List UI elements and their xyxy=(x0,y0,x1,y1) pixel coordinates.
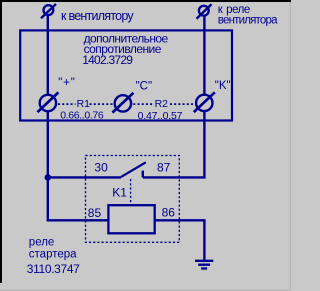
label: к реле вентилятора xyxy=(218,4,278,27)
svg-text:0.47..0.57: 0.47..0.57 xyxy=(138,110,183,122)
wire: coil pin 86 to ground xyxy=(156,220,205,261)
junction node on left wire xyxy=(45,174,52,181)
armature link (dashed) xyxy=(130,179,132,204)
ground symbol xyxy=(195,261,213,269)
label: дополнительное сопротивление 1402.3729 xyxy=(82,32,168,67)
svg-text:0.66..0.76: 0.66..0.76 xyxy=(60,110,104,122)
terminal: to fan (screw symbol) xyxy=(41,4,56,18)
svg-text:"C": "C" xyxy=(136,80,152,92)
resistor R2 (dashed leads) xyxy=(133,103,193,105)
relay K1 dashed enclosure xyxy=(86,156,180,243)
svg-text:1402.3729: 1402.3729 xyxy=(82,53,133,67)
terminal: to fan relay (screw symbol) xyxy=(197,4,212,18)
contact: fixed 87 tick xyxy=(142,171,144,178)
relay coil K1 xyxy=(108,205,154,233)
wire: left vertical from fan terminal down and across to coil pin 85 xyxy=(48,13,109,220)
label: реле стартера 3110.3747 xyxy=(27,237,80,276)
svg-text:к вентилятору: к вентилятору xyxy=(61,9,134,23)
wire: right vertical from fan-relay terminal down to contact 87 xyxy=(143,13,205,177)
svg-text:85: 85 xyxy=(88,206,102,220)
svg-text:"K": "K" xyxy=(215,80,231,92)
svg-text:R2: R2 xyxy=(155,98,169,110)
contact: switch 30-87 (movable arm) xyxy=(121,162,146,177)
box: additional resistor unit 1402.3729 xyxy=(20,30,232,120)
svg-text:K1: K1 xyxy=(112,186,127,200)
terminal "K" (screw symbol) xyxy=(194,92,215,112)
svg-text:87: 87 xyxy=(157,160,171,174)
svg-text:R1: R1 xyxy=(77,98,91,110)
terminal "+" (screw symbol) xyxy=(37,92,58,112)
svg-text:30: 30 xyxy=(94,160,108,174)
svg-text:"+": "+" xyxy=(58,77,75,89)
svg-text:86: 86 xyxy=(162,206,176,220)
svg-text:3110.3747: 3110.3747 xyxy=(27,262,80,276)
resistor R1 (dashed leads) xyxy=(58,103,113,105)
terminal "C" (screw symbol) xyxy=(112,93,133,113)
svg-text:реле: реле xyxy=(29,237,55,249)
wire: junction to relay contact 30 xyxy=(48,176,121,178)
svg-text:стартера: стартера xyxy=(29,249,77,261)
svg-text:вентилятора: вентилятора xyxy=(218,15,278,27)
